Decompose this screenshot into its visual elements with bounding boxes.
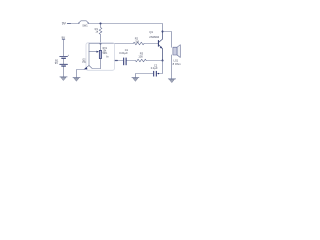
svg-text:100: 100: [138, 54, 143, 58]
wire speaker to ground: [171, 55, 173, 79]
wire battery top: [63, 40, 65, 57]
wire mid line center part: [126, 60, 135, 62]
wiper arrow: [89, 51, 99, 53]
svg-text:9V: 9V: [62, 22, 67, 26]
svg-text:9V: 9V: [55, 61, 58, 65]
svg-text:2N3904: 2N3904: [149, 35, 159, 39]
junction dot on C2 line: [158, 73, 159, 74]
ground (speaker): [168, 79, 175, 83]
svg-text:PN: PN: [82, 62, 86, 64]
speaker LS1: [173, 45, 182, 66]
wiper loop wire: [89, 44, 101, 66]
ground (fork): [73, 78, 80, 82]
wire battery bottom: [63, 67, 65, 77]
ground (battery): [60, 77, 67, 81]
wire fork to ground: [77, 70, 85, 78]
battery B1 column: 9V net label: [62, 35, 66, 39]
wire rail left segment: [70, 23, 78, 25]
junction dot top of R1: [100, 23, 102, 25]
svg-text:1M: 1M: [135, 39, 139, 43]
node A junction dot (R1 / base line / pot): [100, 43, 102, 45]
wire base line left part: [101, 43, 134, 45]
wire base line right part: [144, 43, 158, 45]
resistor R3: [135, 52, 146, 62]
junction dot emitter/mid-line: [162, 60, 164, 62]
resistor R1: [95, 24, 102, 44]
wire rail right segment to corner: [89, 24, 163, 32]
svg-text:Q1: Q1: [149, 30, 153, 34]
ground (middle): [132, 78, 139, 82]
fork element Q2: [82, 59, 100, 69]
battery terminal tick: [62, 38, 64, 40]
9V terminal tick: [67, 23, 70, 25]
svg-text:SW1: SW1: [82, 24, 88, 27]
switch SW1: [78, 21, 89, 28]
transistor Q1 2N3904: [149, 30, 162, 61]
node 9V net label top-left: [62, 22, 67, 26]
svg-text:9V: 9V: [62, 35, 66, 39]
box pin tick: [115, 60, 118, 62]
svg-text:8 Ohm: 8 Ohm: [173, 62, 182, 66]
svg-text:0.1µF: 0.1µF: [151, 66, 158, 70]
junction dot collector node: [162, 31, 164, 33]
potentiometer RV1 body: [99, 44, 109, 59]
capacitor C1: [119, 48, 128, 65]
wire mid line right part: [146, 60, 162, 62]
battery B1: [55, 54, 70, 67]
wire mid line left part to box pin: [115, 60, 124, 62]
wire C2 to ground corner: [136, 74, 154, 78]
resistor R2: [133, 37, 144, 45]
pot bottom terminal wire: [100, 59, 102, 69]
wire branch to speaker: [163, 32, 172, 48]
wire emitter down: [157, 61, 163, 74]
module box outline: [86, 43, 115, 71]
svg-text:0.01µF: 0.01µF: [119, 51, 128, 55]
capacitor C2: [151, 63, 158, 76]
svg-text:50%: 50%: [103, 53, 108, 55]
